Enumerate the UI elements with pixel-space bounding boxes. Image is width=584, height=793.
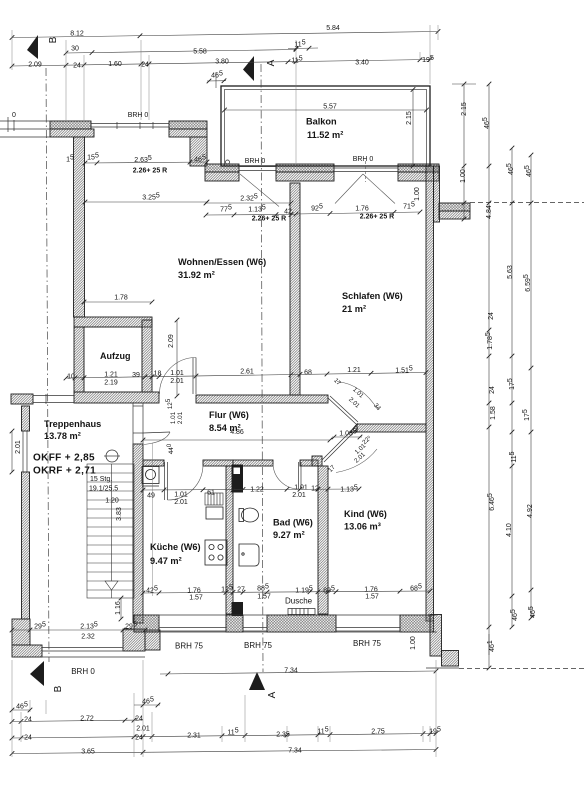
svg-text:24: 24 [488, 312, 495, 320]
svg-text:4.86: 4.86 [230, 429, 244, 436]
svg-text:1.21: 1.21 [347, 367, 361, 374]
svg-text:BRH 0: BRH 0 [128, 112, 149, 119]
svg-text:1.16: 1.16 [115, 601, 122, 615]
svg-text:3.65: 3.65 [81, 749, 95, 756]
window Schlafen north glass [334, 168, 398, 172]
dim bottom row y737 [12, 734, 436, 739]
wall south-east corner down [430, 615, 442, 657]
svg-text:42: 42 [284, 209, 292, 216]
south-east corner edges + dashed boundary [426, 203, 584, 669]
wall Treppenhaus top [11, 394, 33, 404]
svg-text:2.72: 2.72 [80, 716, 94, 723]
svg-text:9.27 m²: 9.27 m² [273, 530, 305, 540]
window Kind south glass [336, 628, 400, 632]
dim Aufzug height 2.09 [176, 320, 178, 396]
wall south pier Dusche/Kind [267, 615, 336, 632]
svg-text:Flur (W6): Flur (W6) [209, 410, 249, 420]
dim row middle y377 [66, 373, 426, 379]
svg-text:4.10: 4.10 [506, 523, 513, 537]
svg-text:12: 12 [311, 486, 319, 493]
dim row Wohnen 3.25.5 [85, 201, 207, 203]
wall notch bottom-left [12, 619, 30, 645]
svg-text:BRH 75: BRH 75 [175, 642, 204, 651]
svg-text:2.15: 2.15 [406, 111, 413, 125]
wall Flur north (Wohnen/Flur) [196, 395, 328, 403]
svg-text:2.01: 2.01 [136, 726, 150, 733]
dim col right C [511, 148, 513, 627]
dim 46.5 bottom-left marks [12, 709, 30, 711]
door Wohnen (from Flur) [160, 358, 197, 395]
svg-text:19.1/25.5: 19.1/25.5 [89, 486, 118, 493]
wall Dusche/Kind [318, 466, 328, 614]
window Treppenhaus south glass (BRH 0) [42, 648, 123, 652]
Aufzug cabin inner rect [84, 327, 142, 392]
stair walk line arrow tail [111, 590, 113, 598]
wall Kueche/Bad [226, 466, 233, 614]
svg-text:1.22: 1.22 [250, 487, 264, 494]
svg-text:24: 24 [73, 63, 81, 70]
svg-text:2.15: 2.15 [461, 102, 468, 116]
Kueche sink unit [142, 467, 159, 487]
svg-text:15 Stg.: 15 Stg. [90, 476, 112, 483]
svg-text:3.40: 3.40 [355, 60, 369, 67]
svg-text:3.80: 3.80 [215, 59, 229, 66]
neighbour wall lines top-left [0, 117, 52, 137]
dim row Treppenhaus bottom y630 [12, 629, 152, 631]
dim balcony width 5.57 [225, 109, 427, 111]
svg-text:Aufzug: Aufzug [100, 351, 131, 361]
svg-text:0: 0 [12, 112, 16, 119]
dim right bottom 46 marks [488, 634, 490, 655]
svg-text:61: 61 [207, 490, 215, 497]
dim bottom row y721 [12, 720, 143, 722]
svg-text:OKRF + 2,71: OKRF + 2,71 [33, 466, 96, 477]
Bad toilet [239, 508, 259, 522]
door Schlafen (angled) [328, 382, 378, 425]
wall Kueche north left [143, 460, 164, 466]
svg-text:4.92: 4.92 [527, 504, 534, 518]
shaft black Bad [232, 465, 244, 493]
svg-text:13.78 m²: 13.78 m² [44, 431, 81, 441]
svg-text:24: 24 [141, 62, 149, 69]
wall Kueche north right [203, 460, 233, 466]
svg-text:Balkon: Balkon [306, 117, 337, 127]
svg-text:1.57: 1.57 [189, 595, 203, 602]
wall south pier at shaft [226, 615, 243, 632]
svg-text:BRH 0: BRH 0 [71, 667, 95, 676]
svg-text:27: 27 [237, 587, 245, 594]
Kueche radiator [205, 493, 223, 505]
wall Aufzug left [74, 327, 84, 392]
wall Treppenhaus/Kueche west [133, 444, 143, 623]
svg-text:2.32: 2.32 [81, 634, 95, 641]
svg-text:2.35: 2.35 [276, 732, 290, 739]
Bad washbasin [239, 544, 259, 566]
wall Treppenhaus west upper [22, 406, 30, 431]
dim row Kueche/Bad y490 [143, 489, 360, 490]
section marker triangle B bottom [30, 661, 44, 686]
south wall edge lines [12, 615, 437, 657]
wall balcony sill, right piece [398, 164, 439, 172]
svg-text:2.26+ 25 R: 2.26+ 25 R [360, 214, 394, 221]
dim row Wohnen 77.5/1.13.5/42 [206, 214, 296, 217]
wall balcony sill, left piece [205, 164, 239, 172]
svg-text:2.26+ 25 R: 2.26+ 25 R [133, 168, 167, 175]
wall Aufzug top [74, 317, 152, 327]
svg-text:1.01: 1.01 [294, 485, 308, 492]
svg-text:2.01: 2.01 [15, 440, 22, 454]
dim bottom row y752 [12, 750, 436, 754]
svg-text:68: 68 [304, 370, 312, 377]
svg-text:10: 10 [67, 374, 75, 381]
svg-text:1.76: 1.76 [355, 206, 369, 213]
wall Bad north left [233, 460, 273, 466]
section marker triangle A bottom [249, 672, 265, 690]
wall south-east pier [400, 615, 434, 632]
svg-text:2.61: 2.61 [240, 369, 254, 376]
svg-text:1.00: 1.00 [414, 187, 421, 201]
svg-text:1.76: 1.76 [187, 588, 201, 595]
dim 1.16 stairs [120, 598, 122, 619]
svg-text:24: 24 [24, 735, 32, 742]
wall top-left block (exterior north wall, left of window) [50, 121, 91, 129]
window Kueche south glass (BRH 75) [159, 628, 226, 632]
svg-text:Wohnen/Essen (W6): Wohnen/Essen (W6) [178, 257, 266, 267]
stairs [87, 464, 134, 598]
section marker triangle B top [27, 35, 38, 59]
wall Treppenhaus bottom right block [123, 629, 145, 651]
svg-text:Küche (W6): Küche (W6) [150, 542, 201, 552]
svg-text:39: 39 [132, 372, 140, 379]
svg-text:7.34: 7.34 [288, 748, 302, 755]
svg-text:1.00: 1.00 [410, 636, 417, 650]
wall Treppenhaus bottom left of window [12, 645, 42, 657]
svg-text:1.01: 1.01 [170, 411, 177, 424]
svg-text:5.63: 5.63 [507, 265, 514, 279]
svg-text:OKFF + 2,85: OKFF + 2,85 [33, 453, 95, 464]
svg-text:BRH 75: BRH 75 [353, 639, 382, 648]
bottom extension verticals [12, 443, 436, 757]
svg-text:B: B [53, 685, 64, 692]
svg-text:30: 30 [71, 46, 79, 53]
dim col right A (2.15 / 1.00) [463, 84, 465, 219]
wall connector west of balcony [190, 137, 207, 166]
svg-text:1.20: 1.20 [105, 498, 119, 505]
wall Schlafen/Kind [357, 424, 426, 432]
svg-text:1.01: 1.01 [174, 492, 188, 499]
svg-text:1.57: 1.57 [365, 594, 379, 601]
dim row Schlafen top 92.5/1.76/71.5 [296, 212, 420, 214]
svg-text:BRH 0: BRH 0 [245, 158, 266, 165]
svg-text:Treppenhaus: Treppenhaus [44, 419, 101, 429]
dim row Wohnen top-right 2.32.5 [206, 202, 291, 204]
dim balcony depth 2.15 inner [412, 90, 414, 167]
svg-text:49: 49 [147, 493, 155, 500]
svg-text:Kind (W6): Kind (W6) [344, 509, 387, 519]
dim short 11.5 upper right [288, 47, 318, 50]
section line B [46, 68, 49, 662]
svg-text:2.19: 2.19 [104, 380, 118, 387]
svg-text:Dusche: Dusche [285, 597, 313, 606]
wall Wohnen/Schlafen [290, 183, 300, 395]
svg-text:1.76: 1.76 [364, 587, 378, 594]
door entry (Treppenhaus to Flur) [133, 403, 170, 445]
wall Aufzug right [142, 320, 152, 392]
svg-text:11.52 m²: 11.52 m² [307, 130, 343, 140]
dim row 2 top (30 / 5.58) [66, 50, 296, 54]
wall stub north-east [439, 203, 470, 211]
svg-text:B: B [48, 36, 59, 43]
svg-text:2.01: 2.01 [177, 411, 184, 424]
svg-text:1.58: 1.58 [490, 406, 497, 420]
svg-text:2.01: 2.01 [170, 378, 184, 385]
Dusche tray [288, 609, 315, 615]
svg-text:24: 24 [135, 735, 143, 742]
wall chamfer corner Kind [312, 456, 322, 466]
section marker triangle A top [243, 56, 254, 81]
balcony door swing line [240, 174, 279, 207]
svg-text:7.34: 7.34 [284, 668, 298, 675]
wall balcony sill, middle piece [276, 164, 334, 172]
window Dusche south glass [243, 628, 267, 632]
svg-text:Bad (W6): Bad (W6) [273, 518, 313, 528]
dim 1.08.5 [332, 436, 362, 438]
dim row 1 top (8.12 / 5.84) [12, 32, 438, 38]
svg-text:A: A [266, 59, 277, 66]
dim Wohnen 1.78 [84, 301, 152, 303]
svg-text:2.09: 2.09 [28, 62, 42, 69]
door Kind (angled) [322, 426, 377, 473]
svg-text:2.31: 2.31 [187, 733, 201, 740]
svg-text:Schlafen (W6): Schlafen (W6) [342, 291, 403, 301]
wall Treppenhaus west lower [22, 472, 30, 619]
svg-text:13.06 m³: 13.06 m³ [344, 522, 381, 532]
svg-text:8.12: 8.12 [70, 31, 84, 38]
balcony door glass [239, 167, 276, 171]
door Bad [273, 462, 301, 489]
wall Bad north right [300, 460, 318, 466]
svg-text:1.57: 1.57 [257, 594, 271, 601]
wall south-east stub [442, 651, 459, 667]
OK level marker circle [106, 450, 118, 462]
balcony outline [221, 86, 430, 166]
svg-text:1.60: 1.60 [108, 61, 122, 68]
svg-text:31.92 m²: 31.92 m² [178, 270, 215, 280]
wall Aufzug bottom [74, 392, 159, 403]
wall south: kuechen corner [134, 615, 159, 632]
dim 7.34 upper [160, 671, 436, 674]
dim Flur 4.86 [143, 439, 330, 441]
extension verticals top [12, 25, 438, 163]
section line A [261, 64, 263, 672]
svg-text:24: 24 [489, 386, 496, 394]
svg-text:1.21: 1.21 [104, 372, 118, 379]
svg-text:24: 24 [135, 716, 143, 723]
dim 2.01 left [11, 431, 13, 472]
window Treppenhaus west glass [23, 431, 27, 472]
window Schlafen opening lines [335, 161, 395, 204]
svg-text:2.75: 2.75 [371, 729, 385, 736]
wall chamfer top joint [350, 424, 357, 432]
dim 46.5 below 3.80 [207, 80, 226, 82]
dim row 3 top (2.09 / 24 / 1.60 / 24 / 3.80 / 11.5 / 3.40 / 19.5) [12, 60, 430, 67]
svg-text:18: 18 [154, 371, 162, 378]
svg-text:5.57: 5.57 [323, 104, 337, 111]
wall east exterior [426, 166, 434, 621]
Kueche lower cabinet [206, 507, 223, 519]
opening Treppenhaus top [33, 394, 74, 404]
svg-text:3.83: 3.83 [116, 507, 123, 521]
Kueche stove [205, 540, 227, 565]
svg-text:2.01: 2.01 [174, 499, 188, 506]
window W1 north (BRH 0) [91, 122, 169, 129]
svg-text:A: A [267, 691, 278, 698]
wall north, right of window W1 [169, 121, 207, 129]
svg-text:21 m²: 21 m² [342, 304, 366, 314]
dim row Wohnen window (1.5/15.5/2.63.5/46.5) [85, 162, 207, 163]
wall step right of Treppenhaus bottom [145, 630, 160, 650]
door Kueche [165, 462, 204, 500]
svg-text:2.09: 2.09 [168, 334, 175, 348]
svg-text:1.78: 1.78 [114, 295, 128, 302]
wall west of Wohnen/Essen [74, 137, 85, 317]
svg-text:BRH 75: BRH 75 [244, 641, 273, 650]
svg-text:5.58: 5.58 [193, 49, 207, 56]
shaft black bottom [232, 602, 244, 616]
svg-text:4.84: 4.84 [486, 205, 493, 219]
dim row south inner y592 [143, 591, 430, 593]
svg-text:BRH 0: BRH 0 [353, 156, 374, 163]
balcony drain circle [226, 160, 230, 164]
svg-text:2.01: 2.01 [292, 492, 306, 499]
dim col right B (46.5 / 4.84 / 24 / 1.78 / 24 / 1.58 / 6.46 / 46) [488, 84, 490, 668]
svg-text:9.47 m²: 9.47 m² [150, 556, 182, 566]
svg-text:1.00: 1.00 [460, 169, 467, 183]
svg-text:2.26+ 25 R: 2.26+ 25 R [252, 216, 286, 223]
svg-text:5.84: 5.84 [326, 25, 340, 32]
svg-text:24: 24 [24, 717, 32, 724]
dim col right D [530, 155, 532, 618]
svg-text:1.01: 1.01 [170, 370, 184, 377]
